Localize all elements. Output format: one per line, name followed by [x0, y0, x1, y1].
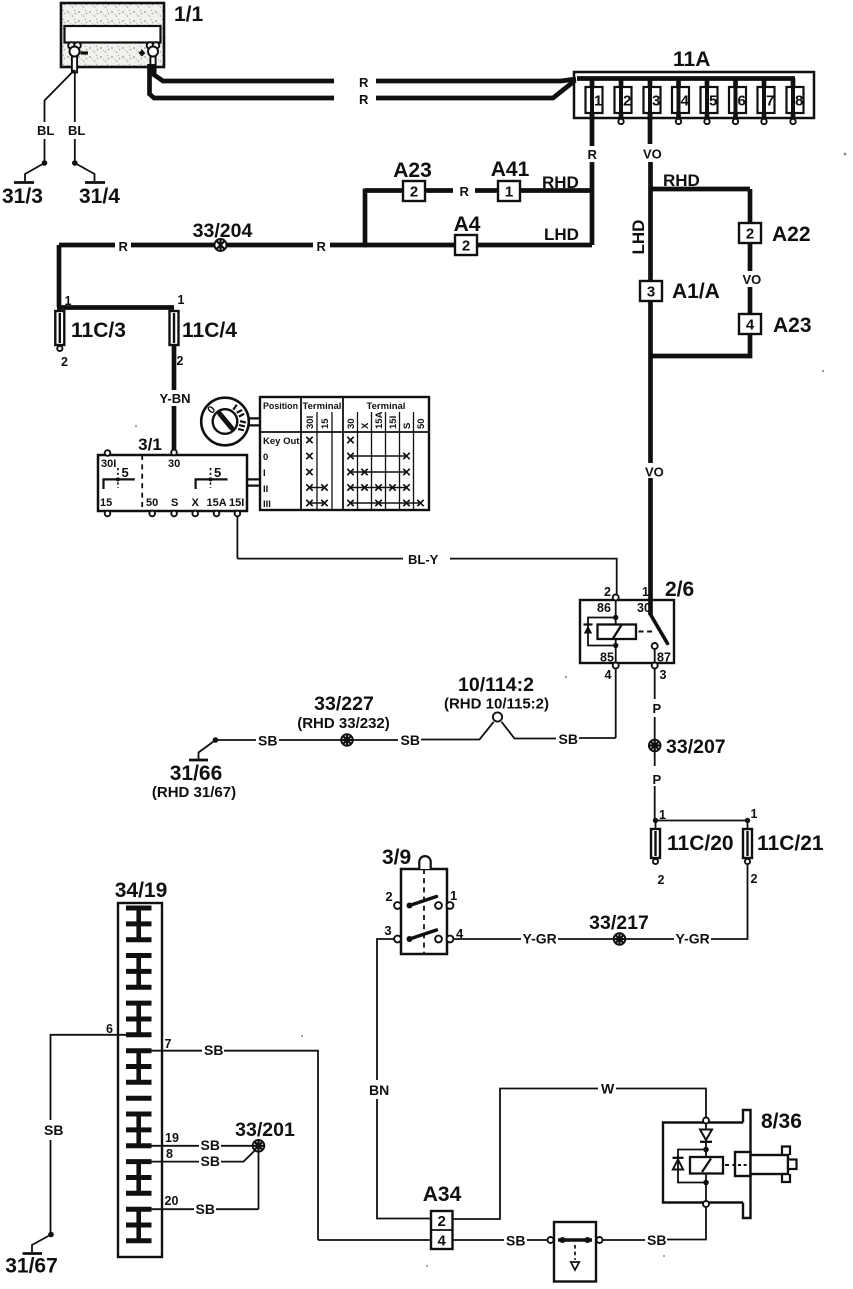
svg-text:31/66: 31/66 [170, 762, 223, 785]
svg-text:A41: A41 [491, 158, 530, 181]
svg-text:15: 15 [320, 418, 331, 429]
svg-text:11A: 11A [673, 48, 710, 71]
svg-text:2: 2 [604, 585, 611, 599]
terminal 50 circle [149, 511, 155, 517]
svg-text:15A: 15A [374, 411, 385, 429]
wire RHD row (A23/A41) [365, 188, 592, 193]
terminal X circle [192, 511, 198, 517]
svg-text:2: 2 [658, 873, 665, 887]
svg-text:A1/A: A1/A [672, 280, 720, 303]
fuse 11C/4 [170, 311, 179, 345]
connector A22 pin 2 [739, 223, 761, 243]
svg-text:86: 86 [597, 601, 611, 615]
connector A4 pin 2 [455, 235, 477, 255]
8/36 motor right tab [788, 1160, 797, 1170]
svg-text:31/4: 31/4 [79, 185, 120, 208]
svg-text:87: 87 [657, 651, 671, 665]
wire BN 3/9 pin3 to A34 [377, 939, 431, 1219]
switch contact right (5) [196, 468, 228, 489]
svg-text:A34: A34 [423, 1183, 462, 1206]
svg-text:BN: BN [369, 1082, 389, 1098]
svg-text:2: 2 [751, 872, 758, 886]
svg-text:2: 2 [462, 238, 470, 255]
3/9 pin 2 circle [394, 902, 401, 909]
svg-text:VO: VO [645, 465, 664, 480]
svg-text:SB: SB [401, 732, 420, 748]
splice 33/207 [649, 740, 661, 752]
svg-text:50: 50 [146, 497, 158, 509]
wire pin 19 SB to splice [152, 1145, 254, 1147]
svg-text:S: S [171, 497, 178, 509]
svg-text:(RHD 31/67): (RHD 31/67) [152, 784, 236, 801]
svg-text:1: 1 [178, 293, 185, 307]
wire SB ground box to 8/36 [603, 1239, 645, 1241]
svg-text:19: 19 [165, 1131, 179, 1145]
wire A22 leg [748, 189, 753, 224]
fuse box 11A [574, 48, 814, 118]
fuse 5 of 11A [701, 78, 718, 124]
svg-text:8: 8 [795, 93, 803, 110]
svg-text:R: R [460, 184, 470, 199]
3/9 pin 1 circle [447, 902, 454, 909]
svg-text:P: P [653, 701, 662, 716]
splice 33/201 [253, 1140, 265, 1152]
terminal 30I top circle [105, 450, 111, 456]
svg-text:SB: SB [647, 1232, 666, 1248]
table row labels [263, 436, 300, 510]
fuse 11C/21 [743, 821, 752, 865]
relay switch arm from 30 [651, 615, 668, 644]
3/9 contact dot lower [407, 936, 413, 942]
svg-text:BL-Y: BL-Y [408, 552, 439, 567]
wire P splice to 11C fuses [654, 752, 656, 821]
fuse 11C/20 [651, 821, 660, 865]
3/9 switch arm lower [410, 930, 437, 939]
wire SB ground 31/66 to relay pin 4 [216, 669, 616, 741]
fuse 6 of 11A [729, 78, 746, 124]
svg-text:30I: 30I [305, 416, 316, 429]
ground 31/66 [189, 737, 218, 760]
8/36 inner dash [738, 1164, 747, 1166]
svg-text:LHD: LHD [544, 225, 579, 244]
svg-text:5: 5 [122, 465, 129, 480]
connector A23 pin 2 [403, 181, 425, 201]
svg-text:3/9: 3/9 [382, 846, 411, 869]
ignition switch 3/1 [98, 455, 247, 511]
connector A34 pins 2/4 [431, 1211, 453, 1250]
svg-text:(RHD 33/232): (RHD 33/232) [297, 715, 390, 732]
svg-text:2: 2 [746, 226, 754, 243]
8/36 coil feed wire [705, 1150, 707, 1183]
terminal 15A circle [214, 511, 220, 517]
wire R from fuse 1 down [590, 113, 595, 245]
svg-text:33/201: 33/201 [235, 1119, 295, 1141]
lock actuator 8/36 housing [663, 1110, 751, 1218]
svg-text:85: 85 [600, 651, 614, 665]
relay pin 87 bottom circle [652, 663, 658, 669]
svg-text:3/1: 3/1 [138, 435, 162, 454]
svg-text:11C/4: 11C/4 [182, 319, 237, 342]
svg-text:31/67: 31/67 [5, 1255, 58, 1278]
wire battery minus to ground 31/4 (BL) [74, 70, 76, 161]
svg-text:1: 1 [642, 585, 649, 599]
svg-text:3: 3 [647, 284, 655, 301]
svg-text:3: 3 [660, 668, 667, 682]
wire VO inside relay to pin 30 [648, 599, 653, 615]
ground 31/4 [72, 160, 105, 182]
3/9 inner circle lower [435, 936, 442, 943]
terminal S circle [171, 511, 177, 517]
8/36 node lower [703, 1180, 709, 1186]
connector 10/114:2 [493, 712, 502, 721]
ground 31/67 [23, 1232, 54, 1254]
svg-text:30I: 30I [101, 458, 116, 470]
svg-text:10/114:2: 10/114:2 [458, 674, 534, 696]
svg-text:33/217: 33/217 [589, 912, 649, 934]
svg-text:2/6: 2/6 [665, 578, 694, 601]
wire splice down to pin 20 row [258, 1152, 260, 1210]
svg-text:SB: SB [506, 1233, 525, 1249]
svg-text:2: 2 [61, 355, 68, 369]
svg-text:R: R [317, 239, 327, 254]
8/36 diode upper [700, 1124, 712, 1149]
svg-text:2: 2 [623, 93, 631, 110]
svg-text:33/227: 33/227 [314, 693, 374, 715]
svg-text:W: W [601, 1081, 615, 1097]
wire top bar 11C/3 11C/4 [57, 305, 174, 310]
wire battery plus to fuse box (lower R) [150, 64, 576, 98]
wire SB to ground box [527, 1239, 547, 1241]
terminal 15 circle [105, 511, 111, 517]
svg-text:R: R [359, 92, 369, 107]
svg-text:SB: SB [204, 1042, 223, 1058]
svg-text:20: 20 [165, 1194, 179, 1208]
fuse 1 of 11A [586, 78, 603, 120]
svg-text:8: 8 [166, 1147, 173, 1161]
svg-text:SB: SB [201, 1137, 220, 1153]
svg-text:SB: SB [258, 733, 277, 749]
svg-text:A22: A22 [772, 223, 811, 246]
3/9 contact dot upper [407, 903, 413, 909]
svg-text:4: 4 [605, 668, 612, 682]
svg-text:3: 3 [652, 93, 660, 110]
svg-text:X: X [360, 422, 371, 429]
svg-text:Position: Position [263, 401, 298, 412]
svg-text:33/204: 33/204 [193, 220, 253, 242]
battery negative terminal [68, 42, 88, 72]
svg-text:(RHD 10/115:2): (RHD 10/115:2) [444, 696, 549, 713]
wire left leg down to 11C/3 [57, 245, 62, 307]
svg-text:Y-BN: Y-BN [159, 391, 190, 406]
svg-text:Terminal: Terminal [367, 401, 406, 412]
scan noise dots [135, 153, 846, 1267]
relay junction dots [613, 615, 618, 620]
svg-text:34/19: 34/19 [115, 879, 168, 902]
fuse 11C/3 [55, 310, 64, 352]
svg-text:15A: 15A [207, 497, 227, 509]
svg-text:0: 0 [263, 452, 268, 463]
wire pin 7 SB to A34 row [152, 1051, 319, 1240]
ground 31/3 [14, 160, 47, 182]
8/36 wire to bottom terminal [705, 1183, 707, 1201]
svg-text:2: 2 [177, 354, 184, 368]
svg-text:4: 4 [681, 93, 690, 110]
svg-text:P: P [653, 772, 662, 787]
svg-text:BL: BL [37, 123, 54, 138]
svg-text:SB: SB [201, 1153, 220, 1169]
svg-text:I: I [263, 468, 266, 479]
svg-text:15I: 15I [229, 497, 244, 509]
svg-text:SB: SB [196, 1201, 215, 1217]
svg-text:R: R [359, 75, 369, 90]
relay pin 85 circle [613, 663, 619, 669]
terminal 15I circle [235, 511, 241, 517]
wire battery plus to fuse box (upper R) [153, 64, 576, 81]
wire VO from fuse 3 down [648, 113, 653, 616]
splice 33/204 [215, 239, 227, 251]
relay pin 2 (86) circle [613, 595, 619, 601]
splice 33/217 [614, 933, 626, 945]
wire W A34 to 8/36 [453, 1089, 707, 1220]
svg-text:RHD: RHD [542, 173, 579, 192]
svg-text:BL: BL [68, 123, 85, 138]
svg-text:2: 2 [438, 1213, 446, 1230]
svg-text:VO: VO [743, 272, 762, 287]
8/36 bottom terminal [703, 1201, 709, 1207]
svg-text:7: 7 [766, 93, 774, 110]
svg-text:1: 1 [65, 294, 72, 308]
node dot 11C/20 [653, 818, 658, 823]
connector A23 pin 4 [739, 314, 761, 334]
relay 2/6 [580, 600, 674, 663]
svg-text:1: 1 [450, 888, 457, 903]
svg-text:1: 1 [505, 184, 513, 201]
8/36 motor body [751, 1155, 789, 1174]
svg-text:Key Out: Key Out [263, 436, 300, 447]
wire BL-Y from 15I to relay 2/6 [237, 517, 616, 595]
svg-text:30: 30 [346, 418, 357, 429]
svg-text:4: 4 [456, 926, 464, 941]
splice 33/227 [341, 734, 353, 746]
svg-text:15: 15 [100, 497, 112, 509]
8/36 node upper [703, 1147, 709, 1153]
svg-text:S: S [402, 423, 413, 429]
link 3/1 box to table [248, 479, 261, 485]
wire A23 leg bottom return [650, 334, 750, 356]
svg-text:Terminal: Terminal [303, 401, 342, 412]
svg-text:III: III [263, 499, 271, 510]
svg-text:A4: A4 [454, 213, 481, 236]
wire SB row to A34 pin4 [318, 1239, 431, 1241]
wire pin 8 SB to splice [152, 1151, 255, 1162]
battery positive terminal [139, 42, 160, 72]
connector A41 pin 1 [498, 181, 520, 201]
svg-text:7: 7 [165, 1037, 172, 1051]
wire P relay to splice [654, 669, 656, 740]
wire Y-BN 11C/4 to ignition switch [172, 345, 177, 450]
svg-text:A23: A23 [393, 159, 432, 182]
svg-text:4: 4 [746, 317, 755, 334]
relay diode branch [588, 618, 616, 646]
wire 33/204 row [59, 243, 367, 248]
svg-text:1: 1 [594, 93, 602, 110]
8/36 motor top tab [782, 1147, 790, 1156]
8/36 diode branch [678, 1150, 706, 1183]
ground connector box [548, 1222, 603, 1282]
wire SB A34 to ground box [453, 1239, 505, 1241]
svg-text:VO: VO [643, 147, 662, 162]
svg-text:SB: SB [44, 1122, 63, 1138]
relay coil [598, 625, 637, 640]
svg-text:A23: A23 [773, 314, 812, 337]
3/9 pin 4 circle [447, 936, 454, 943]
wire pin 20 SB to splice drop [152, 1208, 259, 1210]
8/36 flyback diode [673, 1158, 684, 1170]
terminal 30 circle [171, 450, 177, 456]
svg-text:II: II [263, 484, 268, 495]
svg-text:RHD: RHD [663, 171, 700, 190]
link key to table [249, 418, 261, 425]
relay pin 87 inner circle [652, 643, 658, 649]
wire to 11C/21 [656, 820, 748, 822]
wire left vertical of RHD/LHD loop [363, 189, 368, 246]
wire VO between A22 and A23 [748, 243, 753, 315]
svg-text:R: R [588, 147, 598, 162]
wire SB to 8/36 bottom [667, 1208, 706, 1240]
switch 3/9 [401, 869, 447, 954]
relay coil branch wire [615, 601, 617, 664]
fuse 3 of 11A [644, 78, 661, 120]
svg-text:Y-GR: Y-GR [676, 931, 710, 947]
svg-text:30: 30 [168, 458, 180, 470]
3/9 inner circle upper [435, 902, 442, 909]
svg-text:1: 1 [659, 808, 666, 822]
8/36 connector block [735, 1152, 751, 1176]
svg-text:8/36: 8/36 [761, 1110, 802, 1133]
svg-text:31/3: 31/3 [2, 185, 43, 208]
ignition position table [260, 397, 429, 510]
fuse 2 of 11A [615, 78, 632, 124]
svg-text:5: 5 [709, 93, 717, 110]
svg-text:2: 2 [410, 184, 418, 201]
wire LHD row (A4) [363, 243, 592, 248]
3/9 pin 3 circle [394, 936, 401, 943]
8/36 dashed link to motor [725, 1164, 746, 1166]
fuse 4 of 11A [672, 78, 690, 124]
svg-text:6: 6 [738, 93, 746, 110]
svg-text:33/207: 33/207 [666, 736, 726, 758]
svg-text:1/1: 1/1 [174, 3, 204, 26]
8/36 top terminal [703, 1118, 709, 1124]
svg-text:2: 2 [385, 889, 392, 904]
8/36 motor bottom tab [782, 1174, 790, 1182]
node dot 11C/21 [745, 818, 750, 823]
svg-text:3: 3 [384, 923, 391, 938]
3/9 switch arm upper [410, 897, 437, 906]
connector A1/A pin 3 [640, 281, 662, 301]
relay dashed actuation line [639, 631, 654, 633]
svg-text:11C/21: 11C/21 [757, 832, 824, 855]
relay diode [584, 625, 593, 634]
svg-text:15I: 15I [388, 416, 399, 429]
svg-text:5: 5 [214, 465, 221, 480]
wire Y-GR 11C/21 to 3/9 [454, 864, 748, 939]
fuse 7 of 11A [758, 78, 775, 124]
svg-text:LHD: LHD [629, 220, 648, 255]
svg-text:Y-GR: Y-GR [523, 931, 557, 947]
svg-text:11C/20: 11C/20 [667, 832, 734, 855]
wire battery minus to ground 31/3 (BL) [45, 70, 75, 161]
table marks [306, 437, 423, 506]
wire RHD branch right [651, 187, 751, 192]
svg-text:1: 1 [751, 807, 758, 821]
svg-text:4: 4 [438, 1233, 447, 1250]
wire pin 6 SB to ground 31/67 [51, 1035, 127, 1234]
svg-text:SB: SB [559, 731, 578, 747]
lamp symbol 3/9 [419, 856, 430, 869]
fuse 8 of 11A [787, 78, 804, 124]
8/36 relay coil [690, 1157, 723, 1174]
svg-text:50: 50 [416, 418, 427, 429]
connector strip 34/19 [118, 903, 162, 1257]
svg-text:11C/3: 11C/3 [71, 319, 126, 342]
wire 87 to bottom edge [654, 649, 656, 662]
svg-text:R: R [119, 239, 129, 254]
switch contact left (5) [104, 468, 135, 489]
battery 1/1 [61, 3, 164, 67]
svg-text:X: X [192, 497, 200, 509]
ignition key symbol [201, 398, 249, 446]
table column sub-labels [305, 411, 427, 429]
